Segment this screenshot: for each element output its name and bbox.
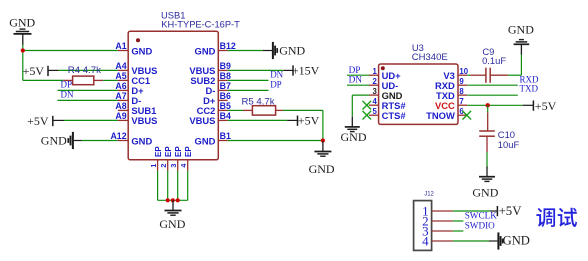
svg-text:B4: B4 xyxy=(220,111,231,121)
svg-text:1: 1 xyxy=(149,164,158,168)
svg-text:GND: GND xyxy=(9,15,35,29)
svg-text:VBUS: VBUS xyxy=(131,115,157,126)
svg-text:B8: B8 xyxy=(220,71,231,81)
svg-text:GND: GND xyxy=(472,185,498,199)
svg-text:A12: A12 xyxy=(110,131,126,141)
svg-text:2: 2 xyxy=(372,77,377,86)
svg-text:KH-TYPE-C-16P-T: KH-TYPE-C-16P-T xyxy=(161,19,240,29)
svg-text:+15V: +15V xyxy=(292,63,320,77)
svg-text:B9: B9 xyxy=(220,61,231,71)
svg-text:J12: J12 xyxy=(424,191,434,197)
svg-text:GND: GND xyxy=(341,130,367,144)
svg-text:10: 10 xyxy=(459,67,468,76)
svg-text:DP: DP xyxy=(61,79,73,89)
svg-text:SWDIO: SWDIO xyxy=(465,221,495,231)
svg-text:GND: GND xyxy=(131,45,152,56)
svg-text:GND: GND xyxy=(41,133,67,147)
svg-text:A9: A9 xyxy=(115,111,126,121)
svg-text:9: 9 xyxy=(459,77,464,86)
svg-text:+5V: +5V xyxy=(499,204,523,218)
svg-text:+5V: +5V xyxy=(27,114,49,128)
svg-text:DP: DP xyxy=(349,66,361,76)
svg-text:GND: GND xyxy=(503,233,530,247)
svg-text:EP: EP xyxy=(184,146,193,157)
svg-text:VBUS: VBUS xyxy=(189,115,215,126)
svg-text:2: 2 xyxy=(159,164,168,168)
svg-text:A8: A8 xyxy=(115,101,126,111)
svg-text:EP: EP xyxy=(164,146,173,157)
svg-text:B6: B6 xyxy=(220,91,231,101)
svg-text:A4: A4 xyxy=(115,61,126,71)
svg-text:R4 4.7k: R4 4.7k xyxy=(68,65,101,76)
svg-text:GND: GND xyxy=(279,44,305,58)
svg-text:DN: DN xyxy=(61,89,74,99)
svg-text:CH340E: CH340E xyxy=(412,52,448,63)
svg-text:GND: GND xyxy=(508,23,534,37)
svg-text:4: 4 xyxy=(372,97,377,106)
svg-text:5: 5 xyxy=(372,107,377,116)
svg-text:DN: DN xyxy=(270,69,283,79)
svg-text:GND: GND xyxy=(131,135,152,146)
svg-text:EP: EP xyxy=(154,146,163,157)
svg-text:TXD: TXD xyxy=(520,84,539,94)
svg-text:+5V: +5V xyxy=(298,113,320,127)
svg-text:A6: A6 xyxy=(115,81,126,91)
svg-text:3: 3 xyxy=(169,164,178,168)
svg-text:3: 3 xyxy=(372,87,377,96)
svg-text:EP: EP xyxy=(174,146,183,157)
svg-text:GND: GND xyxy=(159,217,185,231)
svg-text:+5V: +5V xyxy=(23,64,45,78)
svg-text:A5: A5 xyxy=(115,71,126,81)
svg-text:B1: B1 xyxy=(220,131,231,141)
svg-text:TNOW: TNOW xyxy=(426,110,455,121)
svg-text:GND: GND xyxy=(195,135,216,146)
svg-text:R5 4.7k: R5 4.7k xyxy=(242,96,275,107)
svg-text:+5V: +5V xyxy=(535,99,557,113)
svg-text:GND: GND xyxy=(309,162,335,176)
svg-text:B12: B12 xyxy=(220,41,236,51)
svg-text:8: 8 xyxy=(459,87,464,96)
svg-text:B5: B5 xyxy=(220,101,231,111)
svg-text:CTS#: CTS# xyxy=(382,110,407,121)
svg-text:SWCLK: SWCLK xyxy=(465,210,498,220)
svg-text:7: 7 xyxy=(459,97,463,106)
svg-text:A7: A7 xyxy=(115,91,126,101)
svg-text:GND: GND xyxy=(195,45,216,56)
svg-text:DP: DP xyxy=(270,79,282,89)
svg-text:10uF: 10uF xyxy=(498,139,520,150)
svg-text:1: 1 xyxy=(372,67,377,76)
svg-text:4: 4 xyxy=(422,234,429,249)
svg-text:4: 4 xyxy=(179,164,188,168)
svg-text:B7: B7 xyxy=(220,81,231,91)
svg-text:A1: A1 xyxy=(115,41,126,51)
svg-text:DN: DN xyxy=(349,76,363,86)
svg-text:0.1uF: 0.1uF xyxy=(482,55,506,66)
